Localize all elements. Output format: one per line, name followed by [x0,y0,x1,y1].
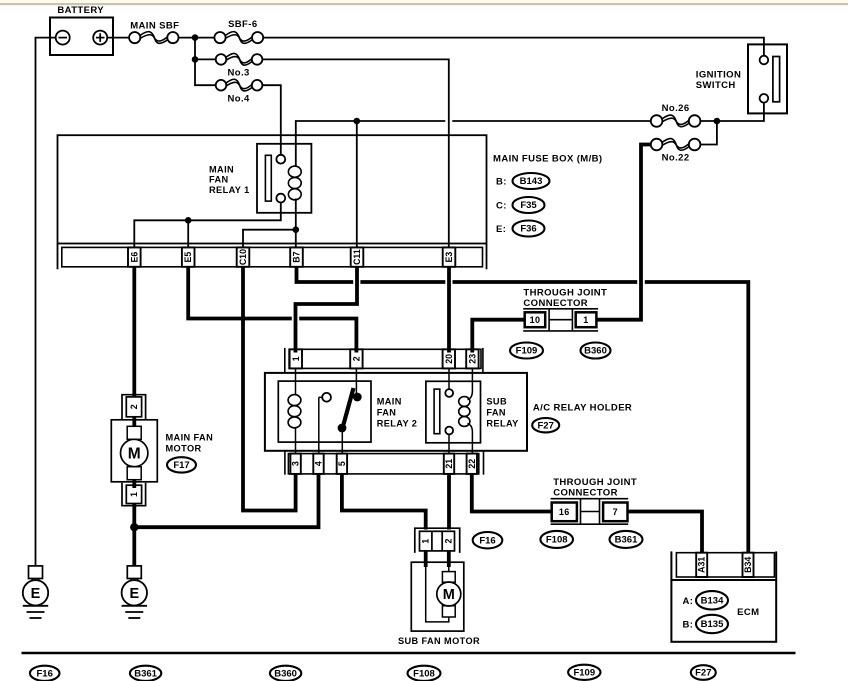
svg-text:1: 1 [129,492,139,497]
svg-text:23: 23 [467,354,477,364]
wire pin E5 to relay holder pin 2 [188,267,292,319]
svg-text:A/C RELAY HOLDER: A/C RELAY HOLDER [533,403,632,414]
svg-text:F108: F108 [413,669,435,680]
svg-text:A:: A: [683,596,694,607]
wire pin C11 to relay holder pin 1 [296,267,358,353]
wire node to pin C11 inside fuse box [356,121,358,248]
wire relay holder pin 5 to sub fan motor pin 1 [342,474,426,530]
legend connector B360 [270,666,301,681]
pin B34 [743,553,754,577]
svg-text:B:: B: [496,176,507,187]
svg-text:E3: E3 [444,252,454,263]
svg-text:F27: F27 [538,420,554,431]
wire relay holder pin 22 to through joint connector 16 [472,474,551,512]
svg-text:CONNECTOR: CONNECTOR [553,487,618,498]
svg-text:CONNECTOR: CONNECTOR [523,298,588,309]
pin C10 [237,247,250,266]
relay holder top strip [289,349,481,368]
svg-text:2: 2 [129,404,139,409]
fuse No.22 [651,139,663,151]
connector F16 [473,532,503,548]
svg-text:F17: F17 [173,460,189,471]
svg-text:RELAY: RELAY [486,419,518,429]
svg-text:F108: F108 [546,535,568,546]
svg-text:No.22: No.22 [662,152,690,163]
pin 23 top strip [466,349,478,368]
svg-text:C:: C: [496,200,507,211]
legend connector F27 [691,665,716,680]
pin 5 bottom strip [337,454,347,474]
svg-text:BATTERY: BATTERY [57,5,104,16]
svg-text:5: 5 [337,461,347,466]
svg-text:F27: F27 [695,668,711,679]
svg-text:B7: B7 [292,251,302,262]
main fan relay 1 [257,144,311,213]
node E5 tap [185,217,192,224]
connector F27 [532,418,559,432]
svg-text:B134: B134 [701,596,724,607]
pin E6 [128,247,141,266]
svg-text:MAIN: MAIN [209,164,234,174]
svg-text:A31: A31 [697,557,707,573]
fuse SBF-6 [214,32,225,43]
pin 7 [603,503,627,522]
pin 20 top strip [443,349,455,368]
pin B7 [290,247,303,266]
svg-text:E:: E: [496,224,506,235]
svg-text:1: 1 [291,356,301,361]
legend connector F16 [30,666,60,681]
svg-text:RELAY 1: RELAY 1 [209,185,250,195]
pin 1 top strip [290,349,302,368]
pin 21 bottom strip [444,454,454,474]
wire node to pin C10 [243,230,296,248]
main fan motor connector pin 1 [122,483,146,506]
svg-text:THROUGH JOINT: THROUGH JOINT [523,287,607,298]
svg-text:10: 10 [530,315,541,325]
svg-text:F36: F36 [520,224,536,235]
wire through joint connector 1 to No.22 fuse [597,145,651,320]
svg-text:B360: B360 [584,346,607,357]
wire node to No.4 fuse [195,59,216,85]
pin 16 [552,503,577,522]
main fuse box M/B [58,135,487,243]
wire No.3 to pin E3 [263,59,449,248]
svg-text:SUB FAN MOTOR: SUB FAN MOTOR [398,636,480,646]
svg-text:B135: B135 [701,619,724,630]
sub fan relay [426,381,481,443]
sub fan motor connector [415,528,460,553]
svg-text:RELAY 2: RELAY 2 [377,419,418,429]
wire battery positive to MAIN SBF [107,37,129,39]
connector B361 [610,531,643,548]
connector B360 [581,343,611,359]
main fan motor connector pin 2 [122,395,146,420]
through joint connector F109/B360 [523,308,598,310]
wire through joint connector 7 to ECM A31 [628,512,702,554]
connector F17 [167,457,196,472]
node ignition feed junction [714,118,721,125]
svg-text:F109: F109 [573,668,595,679]
wire relay 1 contact to E6/E5 pins [134,203,280,248]
pin C11 [351,247,364,266]
svg-text:4: 4 [314,461,324,466]
connector F108 [540,531,573,548]
connector F109 [510,343,543,359]
svg-text:7: 7 [613,507,618,517]
pin 22 bottom strip [467,454,477,474]
svg-text:IGNITION: IGNITION [696,70,741,81]
svg-text:E: E [129,586,139,602]
wire relay holder pin 21 to sub fan motor pin 2 [447,474,451,530]
svg-text:No.4: No.4 [228,93,251,104]
svg-text:F16: F16 [479,535,495,546]
wire node to No.3 branch [194,38,196,60]
svg-text:SUB: SUB [486,397,507,407]
svg-text:B143: B143 [520,176,543,187]
wire node to pin B7 [295,230,297,247]
relay holder bottom strip [288,454,478,474]
through joint connector F108/B361 [551,498,629,500]
wire pin B7 to ECM B34 [297,267,354,283]
svg-text:E5: E5 [183,252,193,263]
svg-text:ECM: ECM [737,607,759,618]
wire pin E6 to main fan motor [132,267,136,397]
fuse MAIN SBF [129,32,140,43]
wire main fan relay 1 coil to No.26 line [296,121,446,166]
fuse No.3 [216,54,227,65]
wire pin E3 to relay holder pin 20 [447,267,451,353]
pin 1 [576,312,597,327]
svg-text:MAIN FAN: MAIN FAN [166,432,214,442]
svg-text:E6: E6 [129,252,139,263]
wire battery negative to ground E (F16) [36,38,56,566]
wire No.4 to main fan relay 1 contact [262,85,280,154]
svg-text:2: 2 [351,356,361,361]
svg-text:1: 1 [421,539,431,544]
svg-text:F109: F109 [516,346,538,357]
wire SBF-6 to ignition switch [263,38,764,56]
svg-text:C11: C11 [352,249,362,265]
pin E3 [443,247,456,266]
pin 3 bottom strip [290,454,300,474]
pin 2 top strip [350,349,362,368]
svg-text:MAIN: MAIN [377,397,402,407]
node at No.3 branch [192,56,199,63]
sub fan motor [424,551,428,567]
legend connector F108 [408,666,441,681]
svg-text:MAIN FUSE BOX (M/B): MAIN FUSE BOX (M/B) [493,154,602,165]
wire No.26 to ignition switch junction [700,120,717,122]
wire relay holder pin 4 to motor ground junction [134,474,318,527]
svg-text:C10: C10 [238,249,248,265]
pin E5 [182,247,195,266]
ignition switch [748,44,787,113]
node C11 tap on coil line [354,118,361,125]
svg-text:2: 2 [443,539,453,544]
svg-text:16: 16 [559,507,570,517]
svg-text:B360: B360 [274,669,297,680]
pin 4 bottom strip [313,454,323,474]
wire node to No.3 fuse [195,58,216,60]
svg-text:B34: B34 [743,557,753,573]
ground E battery (F16) [29,566,43,579]
svg-text:MAIN SBF: MAIN SBF [130,21,179,32]
battery [50,18,113,56]
svg-text:3: 3 [291,461,301,466]
svg-text:No.26: No.26 [662,103,690,114]
svg-text:FAN: FAN [486,408,506,418]
wire MAIN SBF to SBF-6 with node [179,37,215,39]
pin A31 [696,553,707,577]
wire relay holder pin 23 to through joint connector 10 [472,320,524,353]
wire node to pin E5 [187,220,189,248]
wire junction to ignition switch bottom [717,103,764,121]
svg-text:F35: F35 [520,200,537,211]
legend connector B361 [130,666,161,681]
svg-text:SWITCH: SWITCH [696,80,736,91]
node coil output [293,226,300,233]
ECM box [671,580,776,642]
fuse box connector strip [62,247,483,266]
main fan relay 2 [278,381,371,442]
pin 10 [525,312,546,327]
svg-text:B361: B361 [615,535,638,546]
svg-text:THROUGH JOINT: THROUGH JOINT [553,477,637,488]
svg-text:20: 20 [444,354,454,364]
A/C relay holder box [265,373,527,451]
svg-text:21: 21 [444,459,454,469]
svg-text:FAN: FAN [377,408,397,418]
svg-text:FAN: FAN [209,175,229,185]
fuse No.26 [651,115,663,127]
ground E main fan motor (B361) [127,566,141,579]
legend separator [22,652,796,654]
wire junction to No.22 fuse [700,121,717,145]
ground junction node [130,523,138,531]
svg-text:B:: B: [683,620,694,631]
legend connector F109 [568,665,600,680]
svg-text:1: 1 [583,315,588,325]
wire pin C10 to relay holder pin 3 [243,267,296,511]
svg-text:E: E [31,586,41,602]
main fan motor [132,417,136,427]
svg-text:F16: F16 [37,669,53,680]
svg-text:22: 22 [467,459,477,469]
node at MAIN SBF output [192,34,199,41]
svg-text:No.3: No.3 [228,67,250,78]
wire main fan motor to ground E (B361) [132,504,136,566]
fuse No.4 [216,80,227,91]
svg-text:B361: B361 [134,669,157,680]
wire relay 1 coil to node [295,199,297,230]
svg-text:MOTOR: MOTOR [166,443,202,453]
svg-text:M: M [128,446,141,463]
svg-text:M: M [443,587,455,603]
svg-text:SBF-6: SBF-6 [228,19,257,30]
